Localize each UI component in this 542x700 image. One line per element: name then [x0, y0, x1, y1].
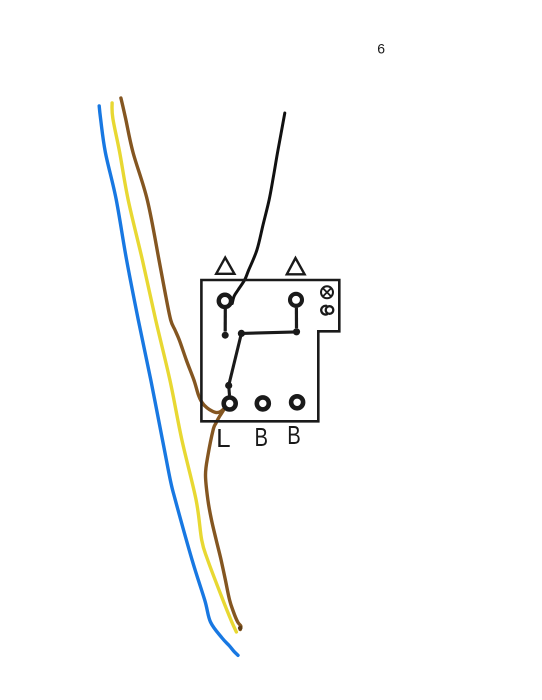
terminal top-left: [219, 295, 231, 307]
wire black (feed to switch): [232, 113, 285, 304]
wire blue: [99, 106, 238, 655]
stub from top-right terminal: [295, 308, 298, 329]
node dot mid: [238, 330, 245, 337]
switch blade diagonal: [229, 333, 242, 385]
terminal L: [224, 398, 236, 410]
rotated label 6 (drawn as vector: loop + hook): [326, 306, 334, 314]
svg-text:B: B: [287, 420, 301, 450]
triangle marker right: [287, 258, 305, 274]
svg-text:L: L: [216, 423, 230, 453]
triangle marker left: [216, 258, 234, 274]
lamp symbol circle-X: [321, 286, 333, 298]
node dot right: [293, 328, 300, 335]
wire brown (upper run into L terminal): [121, 98, 227, 413]
wire brown (continuation below L terminal): [206, 406, 241, 630]
node dot left: [222, 332, 229, 339]
terminal B middle: [257, 397, 269, 409]
terminal B right: [291, 396, 303, 408]
svg-text:6: 6: [377, 41, 385, 57]
stub from top-left terminal: [224, 309, 227, 332]
switch box outline: [201, 280, 339, 421]
wire brown end cap: [238, 626, 243, 631]
wire yellow: [112, 103, 236, 632]
terminal top-right: [290, 294, 302, 306]
stub to L terminal: [227, 386, 231, 396]
svg-text:B: B: [254, 422, 268, 452]
node dot above L: [225, 382, 232, 389]
switch link horizontal: [241, 332, 296, 334]
